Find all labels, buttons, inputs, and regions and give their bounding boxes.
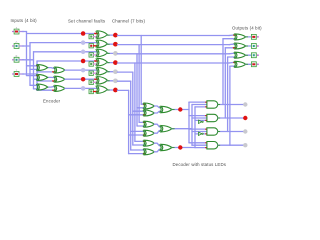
status LED SLED2 <box>243 116 247 120</box>
and gate A3 error position 3 <box>207 128 218 135</box>
wire vertical c6 to decoder <box>130 81 132 150</box>
wire A2 out to status LED <box>218 117 244 119</box>
wire SW3 to X3 <box>94 54 98 56</box>
wire correction e2 up <box>224 48 226 118</box>
wire SW4 to X4 <box>94 63 98 65</box>
wire syndrome s2 <box>172 128 192 130</box>
svg-text:Set channel faults: Set channel faults <box>68 18 106 23</box>
wire vertical c5 to decoder <box>132 72 134 145</box>
wire X3 out <box>107 52 113 54</box>
wire IN2 to vertical d2 <box>23 45 31 47</box>
wire s2 to A1 <box>192 104 208 106</box>
node J4 junction <box>81 59 86 64</box>
wire SW2 to X2 <box>94 45 98 47</box>
wire channel bit c3 to output <box>117 53 229 55</box>
wire to output pin OUT2 <box>246 45 251 47</box>
xor U12 decoder stage1 <box>143 149 154 155</box>
node IN1 left stub <box>12 31 14 33</box>
wire d4 to stage2 U4 bottom <box>37 80 55 82</box>
wire s1 to A4 <box>189 142 208 144</box>
wire IN3 to vertical d3 <box>23 59 34 61</box>
wire U1 out to U2 top <box>48 67 56 70</box>
node OUT2 right tick <box>257 45 259 47</box>
wire c7 to U12 bottom <box>129 153 147 155</box>
wire data c3 into output gate <box>229 52 237 54</box>
status LED SLED1 <box>243 102 247 106</box>
node J6 junction <box>81 77 86 82</box>
svg-text:Encoder: Encoder <box>43 99 61 104</box>
wire channel bit c7 <box>117 89 128 91</box>
fault switch SW5 <box>89 71 93 75</box>
wire c7 to U10 bottom <box>129 134 147 136</box>
wire c6 to U12 top <box>131 149 146 151</box>
wire s1 to A2 <box>189 115 208 117</box>
wire U5 out to U6 top <box>48 86 56 89</box>
wire channel row 1 data <box>27 33 98 35</box>
xor X9 output corrector <box>234 43 246 49</box>
status LED SLED3 <box>243 129 247 133</box>
wire vertical c7 to decoder <box>128 90 130 153</box>
wire e4 to output gate <box>230 65 237 67</box>
wire channel row 4 data <box>37 60 98 62</box>
wire d1 to U3 top <box>27 75 40 77</box>
channel LED5 <box>113 69 118 74</box>
wire X7 out <box>107 89 113 91</box>
wire U12 out to U15 <box>154 149 161 152</box>
wire channel row 7 parity <box>65 87 98 89</box>
wire s3 to A3 <box>195 133 208 135</box>
wire U11 out to U15 <box>154 143 161 146</box>
input pin IN2 <box>14 44 19 49</box>
wire syndrome s3 <box>172 147 195 149</box>
wire channel row 6 parity <box>65 78 98 80</box>
wire A3 out to status LED <box>218 131 244 133</box>
wire d3 to U3 bottom <box>34 78 40 80</box>
wire correction e4 up <box>229 66 231 145</box>
wire c7 to U8 bottom <box>129 114 147 116</box>
node OUT4 right tick <box>257 63 259 65</box>
wire channel bit c2 to output <box>117 44 229 46</box>
wire channel bit c5 <box>117 71 132 73</box>
xor X6 channel fault injector <box>96 77 108 85</box>
output pin OUT2 <box>251 44 256 49</box>
xor U7 decoder stage1 <box>143 103 154 109</box>
xor U8 decoder stage1 <box>143 110 154 116</box>
wire d4 to stage2 U2 bottom <box>37 71 55 73</box>
wire vertical c4 to decoder <box>134 63 136 141</box>
wire d3 to U5 bottom <box>34 88 40 90</box>
wire U8 out to U13 <box>154 111 161 113</box>
wire c4 to U11 top <box>135 140 146 142</box>
wire c5 to U11 bottom <box>133 144 146 146</box>
xor U15 decoder stage2 syndrome s3 <box>160 144 172 150</box>
xor X8 output corrector <box>234 34 246 40</box>
node J2 junction <box>81 40 86 45</box>
xor X7 channel fault injector <box>96 86 108 94</box>
node OUT1 right tick <box>257 36 259 38</box>
wire c3 to U7 bottom <box>137 107 146 109</box>
xor U14 decoder stage2 syndrome s2 <box>160 126 172 132</box>
wire s3 to A4 <box>195 147 208 149</box>
xor U6 encoder stage2 row3 <box>54 85 65 91</box>
wire syndrome s1 <box>172 109 189 111</box>
and gate A1 error position 1 <box>207 101 218 108</box>
wire U7 out to U13 <box>154 106 161 108</box>
xor X2 channel fault injector <box>96 40 108 48</box>
fault switch SW6 <box>89 80 93 84</box>
node J1 junction <box>81 31 86 36</box>
channel LED7 <box>113 88 118 93</box>
wire c6 to U10 top <box>131 130 146 132</box>
node tick row 4 <box>95 60 98 62</box>
output pin OUT4 <box>251 62 256 67</box>
wire vertical s1 <box>188 102 190 143</box>
wire U10 out to U14 <box>154 131 161 134</box>
wire vertical s3 <box>194 107 196 148</box>
wire e2 to output gate <box>225 47 237 49</box>
wire s3 to A2 <box>195 119 208 121</box>
wire vertical d2 <box>29 43 31 86</box>
wire s2 to A2 <box>192 117 208 119</box>
xor U2 encoder stage2 row1 <box>54 67 65 73</box>
wire s1 to A1 <box>189 101 208 103</box>
xor U1 encoder stage1 row1 <box>36 65 47 71</box>
wire A1 out to status LED <box>218 104 244 106</box>
output pin OUT1 <box>251 34 256 39</box>
output pin OUT3 <box>251 53 256 58</box>
wire correction e3 up <box>227 57 229 132</box>
wire d2 to U5 top <box>30 84 39 86</box>
xor U9 decoder stage1 <box>143 121 154 127</box>
wire X1 out <box>107 34 113 36</box>
wire SW5 to X5 <box>94 72 98 74</box>
wire d1 to U1 top <box>27 65 40 67</box>
wire U9 out to U14 <box>154 124 161 127</box>
node OUT3 right tick <box>257 54 259 56</box>
wire X2 out <box>107 43 113 45</box>
svg-text:Channel (7 bits): Channel (7 bits) <box>112 18 145 23</box>
wire vertical s2 <box>191 105 193 146</box>
wire correction e1 up <box>222 39 224 105</box>
wire SW6 to X6 <box>94 81 98 83</box>
fault switch SW7 <box>89 89 93 93</box>
svg-text:Decoder with status LEDs: Decoder with status LEDs <box>173 162 227 167</box>
xor U10 decoder stage1 <box>143 130 154 136</box>
wire IN1 to vertical d1 <box>23 31 27 33</box>
wire c2 to U9 top <box>139 121 146 123</box>
fault switch SW4 <box>89 62 93 66</box>
xor X11 output corrector <box>234 61 246 67</box>
wire vertical d1 <box>26 32 28 76</box>
fault switch SW2 <box>89 44 93 48</box>
inverter on A3 input <box>199 132 204 135</box>
wire d4 to stage2 U6 bottom <box>37 89 55 91</box>
xor X10 output corrector <box>234 52 246 58</box>
wire X4 out <box>107 62 113 64</box>
node s3 dot <box>178 145 182 149</box>
svg-text:Outputs (4 bit): Outputs (4 bit) <box>232 26 262 31</box>
fault switch SW3 <box>89 53 93 57</box>
channel LED4 <box>113 60 118 65</box>
xor U13 decoder stage2 syndrome s1 <box>160 106 172 112</box>
wire data c2 into output gate <box>229 43 237 45</box>
wire data c4 into output gate <box>229 62 237 65</box>
wire e1 to output gate <box>223 38 237 40</box>
wire vertical d3 <box>33 52 35 89</box>
channel LED6 <box>113 78 118 83</box>
wire s1 to A3 <box>189 128 208 130</box>
node IN4 left stub <box>12 73 14 75</box>
and gate A4 error position 4 <box>207 142 218 149</box>
wire s3 to A1 <box>195 106 208 108</box>
wire s2 to A4 <box>192 144 208 146</box>
wire vertical c3 to decoder <box>136 54 138 126</box>
xor X1 channel fault injector <box>96 31 108 39</box>
fault switch SW1 <box>89 34 93 38</box>
channel LED1 <box>113 33 118 38</box>
node e2 tick <box>233 47 236 49</box>
xor U3 encoder stage1 row2 <box>36 74 47 80</box>
wire A4 out to status LED <box>218 144 244 146</box>
node J5 junction <box>81 68 86 73</box>
wire s2 to A3 <box>192 131 208 133</box>
xor X3 channel fault injector <box>96 49 108 57</box>
wire data c1 into output gate <box>229 34 237 36</box>
xor X5 channel fault injector <box>96 67 108 75</box>
wire vertical c2 to decoder <box>138 45 140 123</box>
xor U4 encoder stage2 row2 <box>54 76 65 82</box>
wire vertical d4 <box>36 61 38 90</box>
channel LED2 <box>113 42 118 47</box>
wire SW1 to X1 <box>94 36 98 38</box>
wire SW7 to X7 <box>94 91 98 93</box>
node tick row 1 <box>95 33 98 35</box>
wire U3 out to U4 top <box>48 76 56 78</box>
node J7 junction <box>81 86 86 91</box>
xor U5 encoder stage1 row3 <box>36 84 47 90</box>
input pin IN3 <box>14 57 19 62</box>
wire c3 to U9 bottom <box>137 125 146 127</box>
wire to output pin OUT1 <box>246 36 251 38</box>
wire X6 out <box>107 80 113 82</box>
inverter on A2 input <box>199 120 204 123</box>
wire channel row 2 data <box>30 42 98 44</box>
wire to output pin OUT4 <box>246 63 251 65</box>
channel LED3 <box>113 51 118 56</box>
xor U11 decoder stage1 <box>143 140 154 146</box>
wire channel bit c6 <box>117 80 130 82</box>
wire d2 to U1 bottom <box>30 68 39 70</box>
status LED SLED4 <box>243 143 247 147</box>
wire c5 to U8 top <box>133 110 146 112</box>
wire X5 out <box>107 71 113 73</box>
node tick row 6 <box>95 78 98 80</box>
svg-text:Inputs (4 bit): Inputs (4 bit) <box>11 18 38 23</box>
node IN2 left stub <box>12 45 14 47</box>
and gate A2 error position 2 <box>207 114 218 121</box>
wire channel bit c4 to output <box>117 62 229 64</box>
wire e3 to output gate <box>228 56 237 58</box>
wire IN4 to vertical d4 <box>23 73 38 75</box>
node s1 dot <box>178 107 182 111</box>
input pin IN1 <box>14 29 19 34</box>
wire channel row 5 parity <box>65 69 98 71</box>
wire channel bit c1 to output <box>117 35 229 37</box>
node IN3 left stub <box>12 59 14 61</box>
wire to output pin OUT3 <box>246 54 251 56</box>
node J3 junction <box>81 50 86 55</box>
wire c1 to U7 top <box>141 103 146 105</box>
xor X4 channel fault injector <box>96 58 108 66</box>
wire channel row 3 data <box>34 51 98 53</box>
wire vertical c1 to decoder <box>140 36 142 105</box>
input pin IN4 <box>14 72 19 77</box>
